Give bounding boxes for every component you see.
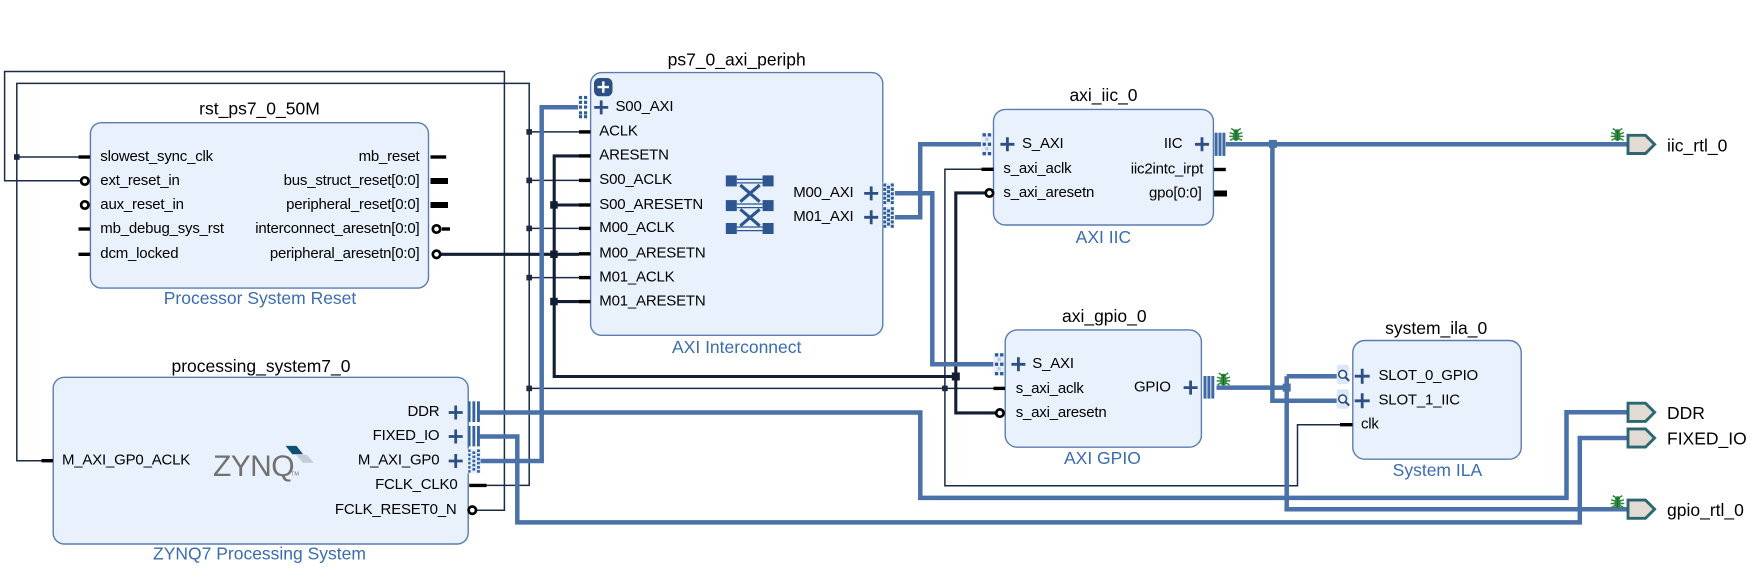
wire: DDR net [480, 412, 1628, 498]
junction clock net at iic/gpio/ila branch [942, 386, 948, 392]
wire branch to ACLK [529, 131, 579, 133]
pin SLOT_1_IIC [1337, 389, 1349, 409]
svg-text:M01_ARESETN: M01_ARESETN [599, 292, 705, 309]
svg-text:M00_ARESETN: M00_ARESETN [599, 245, 705, 262]
wire FCLK_CLK0 to M_AXI_GP0_ACLK main run [17, 83, 529, 485]
debug bug icon on IIC wire [1229, 129, 1243, 141]
pin FCLK_RESET0_N [469, 507, 476, 514]
junction aresetn net at M01_ARESETN branch [550, 298, 558, 306]
svg-text:ZYNQ7 Processing System: ZYNQ7 Processing System [153, 543, 366, 563]
pin s_axi_aclk [994, 387, 1006, 390]
expand button [594, 78, 613, 96]
svg-text:ps7_0_axi_periph: ps7_0_axi_periph [668, 50, 806, 71]
wire branch GPIO to gpio_rtl_0 [1287, 376, 1628, 509]
wire GPIO output run [1217, 385, 1287, 390]
svg-text:axi_gpio_0: axi_gpio_0 [1062, 306, 1147, 327]
svg-text:S00_ACLK: S00_ACLK [599, 171, 672, 188]
block axi_iic_0 (AXI IIC) [981, 85, 1227, 247]
svg-text:aux_reset_in: aux_reset_in [100, 196, 184, 213]
svg-text:gpo[0:0]: gpo[0:0] [1149, 184, 1202, 201]
pin mb_debug_sys_rst [79, 227, 91, 230]
svg-text:iic2intc_irpt: iic2intc_irpt [1131, 160, 1204, 177]
pin M00_ARESETN [579, 252, 591, 255]
svg-text:rst_ps7_0_50M: rst_ps7_0_50M [199, 99, 320, 120]
svg-text:S00_AXI: S00_AXI [616, 98, 674, 115]
wire branch to S00_ACLK [529, 179, 579, 181]
pin M01_ACLK [579, 276, 591, 279]
pin iic2intc_irpt [1214, 168, 1226, 171]
external port gpio_rtl_0 [1611, 496, 1744, 521]
svg-text:IIC: IIC [1164, 135, 1183, 152]
junction clock net at ACLK branch [526, 129, 532, 135]
external port FIXED_IO [1628, 428, 1747, 449]
svg-text:s_axi_aclk: s_axi_aclk [1003, 160, 1072, 177]
svg-text:ACLK: ACLK [599, 123, 638, 140]
svg-text:slowest_sync_clk: slowest_sync_clk [100, 148, 213, 165]
svg-text:interconnect_aresetn[0:0]: interconnect_aresetn[0:0] [255, 220, 419, 237]
pin aux_reset_in [81, 201, 88, 208]
junction aresetn net at S00_ARESETN branch [550, 201, 558, 209]
external port DDR [1628, 403, 1705, 423]
svg-text:M01_ACLK: M01_ACLK [599, 268, 674, 285]
junction clock net at slowest_sync_clk branch [14, 154, 20, 160]
wire branch to slowest_sync_clk [17, 156, 79, 158]
pin dcm_locked [79, 253, 91, 256]
wire branch to M00_ACLK [529, 227, 579, 229]
svg-text:M00_AXI: M00_AXI [793, 184, 853, 201]
pin M01_ARESETN [579, 300, 591, 303]
svg-text:S_AXI: S_AXI [1032, 355, 1074, 372]
svg-text:AXI Interconnect: AXI Interconnect [672, 337, 802, 357]
pin clk [1340, 423, 1353, 426]
pin M00_ACLK [579, 227, 591, 230]
svg-text:ARESETN: ARESETN [599, 147, 668, 164]
junction IIC net [1269, 140, 1277, 148]
svg-text:DDR: DDR [407, 403, 439, 420]
svg-text:SLOT_0_GPIO: SLOT_0_GPIO [1379, 367, 1479, 384]
svg-text:DDR: DDR [1667, 403, 1705, 423]
junction aresetn net at M00_ARESETN branch [550, 251, 558, 259]
pin peripheral_aresetn[0:0] [433, 251, 440, 258]
svg-text:clk: clk [1361, 416, 1379, 433]
pin S00_ACLK [579, 179, 591, 182]
crossbar icon [726, 175, 774, 234]
pin gpo[0:0] [1214, 191, 1227, 197]
pin ACLK [579, 130, 591, 133]
wire branch to ARESETN [554, 156, 579, 254]
pin s_axi_aclk [982, 168, 994, 171]
wire IIC to iic_rtl_0 [1226, 142, 1628, 147]
pin SLOT_0_GPIO [1337, 365, 1349, 385]
block ps7_0_axi_periph (AXI Interconnect) [579, 50, 894, 358]
svg-text:TM: TM [291, 472, 299, 478]
wire branch to iic s_axi_aclk [945, 169, 982, 388]
svg-text:S00_ARESETN: S00_ARESETN [599, 196, 703, 213]
wire branch to system_ila clk [945, 388, 1340, 485]
svg-text:GPIO: GPIO [1134, 378, 1171, 395]
wire branch toward peripherals [529, 387, 945, 389]
wire: M00_AXI to axi_iic S_AXI [895, 144, 981, 217]
pin s_axi_aresetn [986, 189, 993, 196]
block rst_ps7_0_50M (Processor System Reset) [79, 99, 451, 309]
junction clock net at M01_ACLK branch [526, 275, 532, 281]
wire branch to iic s_axi_aresetn [554, 193, 985, 377]
svg-text:M_AXI_GP0: M_AXI_GP0 [358, 452, 440, 469]
svg-text:SLOT_1_IIC: SLOT_1_IIC [1379, 392, 1461, 409]
svg-text:M_AXI_GP0_ACLK: M_AXI_GP0_ACLK [62, 452, 190, 469]
pin ext_reset_in [81, 177, 88, 184]
block system_ila_0 (System ILA) [1337, 318, 1521, 480]
svg-text:M00_ACLK: M00_ACLK [599, 219, 674, 236]
junction clock net at peripherals branch [526, 386, 532, 392]
svg-text:mb_reset: mb_reset [359, 148, 421, 165]
pin S00_AXI [579, 96, 587, 118]
svg-text:dcm_locked: dcm_locked [100, 245, 178, 262]
junction clock net at M00_ACLK branch [526, 226, 532, 232]
svg-text:FIXED_IO: FIXED_IO [1667, 428, 1747, 449]
svg-text:FIXED_IO: FIXED_IO [373, 427, 440, 444]
junction GPIO net [1283, 384, 1291, 392]
wire: FIXED_IO net [480, 437, 1628, 523]
junction aresetn net at iic/gpio branch [952, 373, 960, 381]
svg-text:system_ila_0: system_ila_0 [1385, 318, 1487, 339]
pin ARESETN [579, 154, 591, 157]
pin s_axi_aresetn [996, 409, 1003, 416]
pin mb_reset [431, 155, 447, 158]
pin peripheral_reset[0:0] [431, 202, 449, 208]
svg-text:peripheral_aresetn[0:0]: peripheral_aresetn[0:0] [270, 245, 420, 262]
wire: M01_AXI to axi_gpio S_AXI [895, 193, 994, 364]
external port iic_rtl_0 [1611, 129, 1728, 157]
svg-text:ext_reset_in: ext_reset_in [100, 172, 179, 189]
svg-text:ZYNQ: ZYNQ [213, 450, 294, 483]
svg-text:AXI GPIO: AXI GPIO [1064, 448, 1141, 468]
pin FCLK_CLK0 [469, 484, 486, 487]
svg-text:processing_system7_0: processing_system7_0 [172, 356, 351, 377]
svg-text:S_AXI: S_AXI [1022, 135, 1064, 152]
wire peripheral_aresetn to M00_ARESETN [441, 253, 579, 256]
svg-text:s_axi_aresetn: s_axi_aresetn [1003, 184, 1094, 201]
svg-text:gpio_rtl_0: gpio_rtl_0 [1667, 500, 1744, 521]
pin interconnect_aresetn[0:0] [433, 225, 440, 232]
wire branch IIC to SLOT_1_IIC [1272, 144, 1336, 401]
wire: M_AXI_GP0 to S00_AXI [478, 107, 578, 461]
svg-text:peripheral_reset[0:0]: peripheral_reset[0:0] [286, 196, 419, 213]
pin S_AXI [993, 353, 1004, 376]
wire branch to M01_ARESETN [554, 300, 579, 303]
svg-text:System ILA: System ILA [1393, 460, 1483, 480]
pin M_AXI_GP0_ACLK [42, 459, 54, 462]
pin S00_ARESETN [579, 203, 591, 206]
svg-text:Processor System Reset: Processor System Reset [164, 288, 357, 308]
wire branch to gpio s_axi_aresetn [956, 377, 996, 413]
svg-text:FCLK_RESET0_N: FCLK_RESET0_N [335, 501, 457, 518]
debug bug icon on GPIO wire [1217, 373, 1231, 385]
wire branch to M01_ACLK [529, 277, 579, 279]
svg-text:FCLK_CLK0: FCLK_CLK0 [375, 476, 457, 493]
pin slowest_sync_clk [79, 155, 91, 158]
wire branch to S00_ARESETN [554, 203, 579, 206]
svg-text:mb_debug_sys_rst: mb_debug_sys_rst [100, 220, 225, 237]
svg-text:iic_rtl_0: iic_rtl_0 [1667, 136, 1728, 157]
svg-text:axi_iic_0: axi_iic_0 [1069, 85, 1137, 106]
block processing_system7_0 (ZYNQ7 Processing System) [42, 356, 487, 563]
pin bus_struct_reset[0:0] [431, 178, 449, 184]
wire: FCLK_RESET0_N to ext_reset_in [5, 72, 505, 511]
svg-text:s_axi_aresetn: s_axi_aresetn [1016, 404, 1107, 421]
block axi_gpio_0 (AXI GPIO) [993, 306, 1214, 468]
wire branch GPIO to SLOT_0_GPIO [1287, 374, 1337, 379]
svg-text:M01_AXI: M01_AXI [793, 208, 853, 225]
junction clock net at S00_ACLK branch [526, 178, 532, 184]
svg-text:bus_struct_reset[0:0]: bus_struct_reset[0:0] [284, 172, 420, 189]
svg-text:s_axi_aclk: s_axi_aclk [1016, 380, 1085, 397]
svg-text:AXI IIC: AXI IIC [1076, 227, 1131, 247]
wire branch to gpio s_axi_aclk [945, 387, 994, 389]
pin S_AXI [981, 133, 992, 156]
